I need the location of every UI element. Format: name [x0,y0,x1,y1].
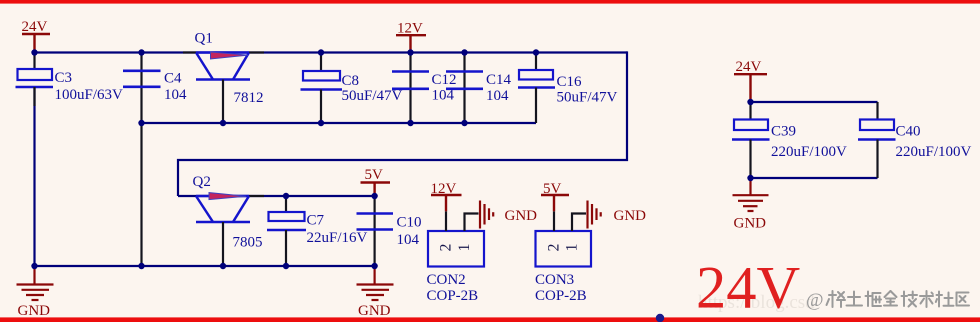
sideways ground symbol at CON3 pin1 [588,201,601,229]
svg-text:GND: GND [614,208,647,224]
svg-text:C16: C16 [557,74,583,90]
junction at C16 top [533,49,539,55]
ground symbol below C39 [733,180,769,211]
junction at 24V/C3 [31,49,37,55]
junction at C14 top [461,49,467,55]
svg-text:1: 1 [456,244,473,252]
junction at Q2 ground [220,263,226,269]
power flag 5V [361,183,391,196]
wire: right section bottom rail [751,177,878,179]
svg-text:220uF/100V: 220uF/100V [771,144,847,160]
svg-text:C39: C39 [771,124,796,140]
wire: ground bottom rail [35,265,375,267]
wire: C4 column to ground rail [140,53,142,267]
svg-text:104: 104 [397,232,420,248]
power flag 5V at CON3 [541,195,569,211]
capacitor C14 [446,53,483,123]
svg-text:2: 2 [438,244,455,252]
svg-text:2: 2 [546,244,563,252]
svg-text:GND: GND [505,208,538,224]
junction at C39 ground [747,175,753,181]
junction at C10 ground [371,263,377,269]
svg-text:CON3: CON3 [535,272,574,288]
svg-text:12V: 12V [431,181,457,197]
junction at C8 bottom [318,120,324,126]
svg-text:GND: GND [18,303,51,319]
区 [957,293,970,306]
svg-text:5V: 5V [365,167,384,183]
capacitor C39 [732,102,770,178]
junction at C8 top [318,49,324,55]
sheet border top [0,0,980,4]
svg-text:C7: C7 [307,213,325,229]
svg-text:5V: 5V [543,181,562,197]
ground symbol below C3 [17,268,54,300]
技 [902,292,918,307]
svg-text:GND: GND [734,216,767,232]
svg-text:104: 104 [164,87,187,103]
稀 [827,291,846,307]
wire: right section top rail [751,101,878,103]
junction at Q1 output [220,120,226,126]
金 [884,291,897,306]
svg-text:C12: C12 [432,72,457,88]
junction at 24V/C39 [747,99,753,105]
wire: C3 ground column [33,87,35,266]
社 [936,292,954,307]
junction at C14 bottom [461,120,467,126]
power flag 12V at CON2 [431,195,462,211]
土 [847,292,863,306]
connector CON3 [536,211,592,266]
wire: 24V top rail [35,51,628,53]
junction at 12V/C12 top [407,49,413,55]
术 [920,291,933,307]
junction at C4 top [138,49,144,55]
svg-text:50uF/47V: 50uF/47V [557,90,618,106]
sideways ground symbol at CON2 pin1 [480,201,493,229]
svg-text:24V: 24V [736,59,762,75]
svg-text:100uF/63V: 100uF/63V [55,87,124,103]
svg-text:1: 1 [564,244,581,252]
junction at C4 ground [138,263,144,269]
power flag 12V [396,35,426,50]
掘 [866,292,882,307]
power flag 24V (right section) [734,74,767,99]
svg-text:C4: C4 [164,71,182,87]
svg-text:220uF/100V: 220uF/100V [896,144,972,160]
capacitor C12 [392,53,429,123]
svg-text:GND: GND [358,303,391,319]
power flag 24V (left) [22,34,50,50]
junction at C4 mid rail [138,120,144,126]
wire: 12V mid rail [142,122,537,124]
svg-text:C8: C8 [342,73,360,89]
wire: top rail right drop [178,51,627,196]
junction at C3 ground [31,263,37,269]
svg-text:C14: C14 [486,72,512,88]
svg-text:COP-2B: COP-2B [535,288,587,304]
svg-text:C40: C40 [896,124,921,140]
connector CON2 [428,211,484,266]
svg-text:CON2: CON2 [427,272,466,288]
junction at C7 ground [283,263,289,269]
capacitor C7 [267,196,306,265]
svg-text:12V: 12V [397,21,423,37]
capacitor C16 [518,53,555,124]
transistor Q1 (7812 regulator) [183,52,264,122]
svg-text:104: 104 [486,88,509,104]
svg-text:@: @ [806,290,824,311]
wire: C40 branch [876,102,878,120]
svg-text:22uF/16V: 22uF/16V [307,230,368,246]
transistor Q2 (7805 regulator) [196,193,264,265]
svg-text:7812: 7812 [234,90,264,106]
capacitor C40 [858,120,896,179]
capacitor C8 [301,53,343,123]
svg-text:Q1: Q1 [195,31,213,47]
svg-text:Q2: Q2 [193,174,211,190]
junction at C12 bottom [407,120,413,126]
sheet border bottom [0,317,980,322]
capacitor C10 [357,196,394,265]
svg-text:24V: 24V [696,255,801,322]
junction dot on bottom border [656,314,664,322]
svg-text:C3: C3 [55,70,73,86]
wire: 5V output rail [178,195,375,197]
capacitor C3 [16,54,54,106]
watermark @稀土掘金技术社区 [806,290,969,311]
svg-text:50uF/47V: 50uF/47V [342,88,403,104]
svg-text:7805: 7805 [233,235,263,251]
ground symbol below C10 [357,268,394,300]
svg-text:24V: 24V [22,19,48,35]
capacitor C4 [123,71,161,87]
svg-text:COP-2B: COP-2B [427,288,479,304]
junction at C7 top [283,193,289,199]
svg-text:C10: C10 [397,215,422,231]
junction at 5V/C10 [371,193,377,199]
